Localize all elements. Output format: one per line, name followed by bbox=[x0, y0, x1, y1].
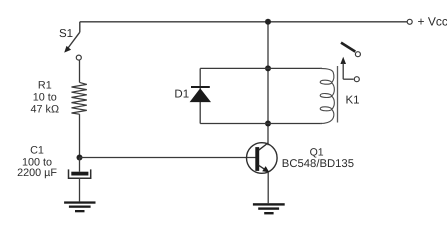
svg-text:Q1: Q1 bbox=[310, 146, 324, 158]
relay coil K1 bbox=[320, 68, 334, 123]
diode D1 bbox=[190, 86, 211, 102]
label C1 value bbox=[17, 144, 57, 179]
svg-text:10 to: 10 to bbox=[33, 91, 57, 103]
svg-text:S1: S1 bbox=[59, 28, 73, 40]
label Q1 bbox=[282, 146, 354, 170]
node loop top junction bbox=[265, 65, 271, 71]
node A junction bbox=[77, 155, 83, 161]
wire diode branch vertical bbox=[199, 68, 201, 123]
svg-text:BC548/BD135: BC548/BD135 bbox=[282, 158, 354, 170]
label R1 value bbox=[31, 79, 59, 115]
wire Vcc drop to relay/collector bbox=[267, 22, 269, 145]
svg-text:C1: C1 bbox=[30, 144, 44, 156]
svg-text:D1: D1 bbox=[174, 88, 189, 100]
node rail junction bbox=[265, 19, 271, 25]
wire loop bottom bbox=[200, 123, 322, 125]
node loop bottom junction bbox=[265, 121, 271, 127]
node +Vcc terminal bbox=[407, 19, 412, 24]
svg-text:2200 µF: 2200 µF bbox=[17, 167, 57, 179]
ground (right, under Q1) bbox=[253, 203, 285, 214]
wire loop top bbox=[200, 67, 322, 69]
resistor R1 bbox=[72, 82, 87, 114]
capacitor C1 bbox=[69, 158, 91, 202]
transistor Q1 bbox=[246, 143, 277, 174]
svg-text:+ Vcc: + Vcc bbox=[418, 15, 447, 29]
wire switch to resistor bbox=[79, 60, 81, 82]
svg-text:47 kΩ: 47 kΩ bbox=[31, 103, 59, 115]
ground (left, under C1) bbox=[64, 201, 95, 212]
relay armature arrow bbox=[340, 57, 359, 82]
svg-text:K1: K1 bbox=[346, 94, 360, 106]
wire top rail bbox=[80, 21, 407, 23]
relay contact blade bbox=[341, 43, 360, 57]
wire resistor to node A bbox=[79, 114, 81, 157]
relay core bar bbox=[337, 66, 339, 123]
svg-text:R1: R1 bbox=[38, 79, 52, 91]
wire base wire bbox=[80, 157, 257, 159]
wire emitter to ground bbox=[267, 172, 269, 203]
switch S1 bbox=[64, 22, 81, 60]
